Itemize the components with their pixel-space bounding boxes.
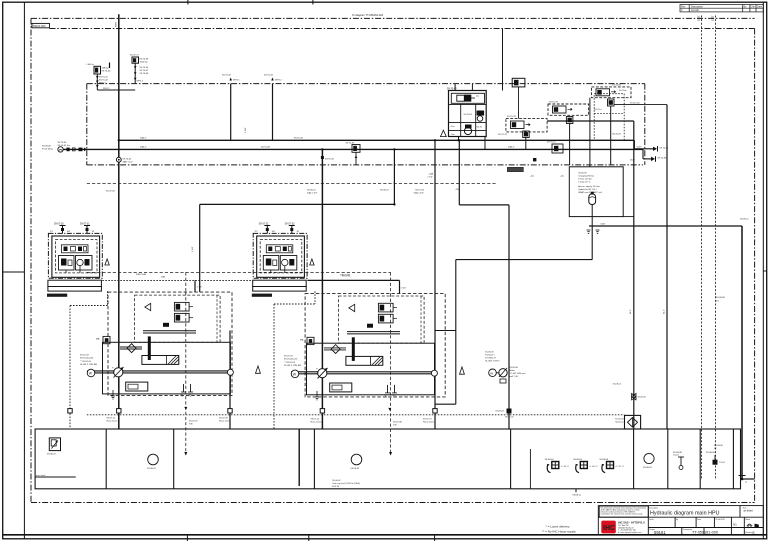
svg-text:21-06-2019: 21-06-2019 [715,519,724,521]
svg-text:59161: 59161 [654,530,666,535]
svg-text:04-2": 04-2" [664,309,666,314]
svg-text:59-09-07 /: 59-09-07 / [485,355,495,357]
svg-text:59-09-12: 59-09-12 [380,190,390,192]
svg-text:59-70-80: 59-70-80 [612,85,622,87]
svg-text:60-05-xx: 60-05-xx [615,422,624,424]
svg-text:M: M [297,231,299,233]
svg-text:59-07-xx: 59-07-xx [342,276,351,278]
svg-text:1 1/4": 1 1/4" [427,177,433,179]
svg-text:29A: 29A [161,276,165,279]
svg-text:Scale: Scale [649,519,654,521]
svg-text:MA: MA [96,338,100,341]
svg-text:59-70: 59-70 [477,126,483,128]
svg-text:* = Loose delivery: * = Loose delivery [546,525,570,529]
svg-text:59-09-05: 59-09-05 [714,445,724,447]
svg-text:P-max 210 bar: P-max 210 bar [578,178,592,181]
svg-text:MA: MA [300,338,304,341]
svg-text:59-70-41: 59-70-41 [99,77,109,79]
svg-text:59-07-07: 59-07-07 [189,421,199,423]
svg-text:59-70-81: 59-70-81 [612,134,622,136]
svg-text:59-07-31: 59-07-31 [80,222,90,225]
svg-text:+/- 50 °C: +/- 50 °C [561,466,570,468]
svg-text:SAE 1 1/2": SAE 1 1/2" [123,161,134,164]
svg-text:59-70-48: 59-70-48 [658,158,668,160]
svg-text:Hose Drain: Hose Drain [219,420,231,423]
svg-text:T/B: T/B [189,424,193,426]
svg-text:WP4.1: WP4.1 [103,88,110,90]
svg-text:Hose 1/2": Hose 1/2" [505,417,514,419]
svg-text:M: M [92,231,94,233]
svg-text:59-70-7x: 59-70-7x [547,142,557,144]
svg-text:59-70xx: 59-70xx [619,90,627,92]
svg-text:59-08-07: 59-08-07 [47,454,57,456]
svg-text:5107: 5107 [601,224,607,226]
svg-text:Sheet: Sheet [745,518,750,521]
svg-text:WP4.2: WP4.2 [137,81,144,83]
svg-text:59-70-38: 59-70-38 [140,73,150,75]
svg-text:1 1/4": 1 1/4" [401,287,407,289]
svg-text:wall T 40°: wall T 40° [510,376,519,378]
svg-text:1 1/4": 1 1/4" [192,246,194,252]
svg-text:Hose Drain: Hose Drain [311,421,323,424]
svg-text:59-70-46 2xx: 59-70-46 2xx [58,145,72,147]
svg-text:As built: As built [691,9,699,12]
svg-text:59-09-08: 59-09-08 [716,297,726,299]
svg-text:04A-2": 04A-2" [140,136,147,139]
svg-text:59-08-04: 59-08-04 [545,459,555,461]
svg-text:59-08-05: 59-08-05 [573,459,583,461]
svg-text:TT-059161-000: TT-059161-000 [692,531,718,535]
svg-text:59-08-01: 59-08-01 [147,468,157,470]
svg-text:59-70-42: 59-70-42 [222,75,232,77]
svg-text:LS-01: LS-01 [673,455,680,457]
svg-text:59-07-08: 59-07-08 [393,422,403,424]
svg-text:28-70-08: 28-70-08 [261,146,271,148]
svg-text:min. level: min. level [36,475,46,477]
svg-text:Description: Description [649,506,658,509]
svg-text:59-09-03: 59-09-03 [615,419,624,421]
svg-text:N1: N1 [733,523,737,527]
svg-text:Date: Date [757,5,763,8]
svg-text:By: By [676,519,678,521]
svg-text:T/B: T/B [393,425,397,427]
svg-text:59-09-04: 59-09-04 [495,411,504,413]
svg-text:59-212-00: 59-212-00 [630,103,640,105]
svg-text:59-08-06: 59-08-06 [599,459,609,461]
svg-text:** 59-91-62: ** 59-91-62 [284,362,296,364]
svg-text:59-70-79: 59-70-79 [549,102,559,104]
svg-text:WP4: WP4 [116,21,118,27]
svg-text:is prohibited. The contents to: is prohibited. The contents to be used f… [601,513,644,516]
svg-text:** = No IHC Hytop supply: ** = No IHC Hytop supply [542,529,576,533]
svg-text:WP3.2: WP3.2 [275,80,282,82]
svg-text:59-70-44: 59-70-44 [99,80,109,82]
svg-text:59-70-78: 59-70-78 [507,116,517,118]
svg-text:59-07-33: 59-07-33 [285,222,295,225]
svg-text:04A-2": 04A-2" [140,145,147,148]
svg-text:SL-0R5 3 TRIO: SL-0R5 3 TRIO [485,361,500,363]
svg-text:59-09-11: 59-09-11 [307,189,316,191]
svg-text:59-70-34: 59-70-34 [325,159,335,161]
svg-text:59-70-x: 59-70-x [594,109,602,111]
svg-text:59-70-64: 59-70-64 [464,114,473,116]
svg-text:+/- 60 °C: +/- 60 °C [589,466,598,468]
svg-text:IHC: IHC [603,525,615,532]
svg-text:59-70-50: 59-70-50 [123,159,133,161]
svg-text:** 59-91-61: ** 59-91-61 [80,361,92,363]
svg-text:Hydraulic diagram main HPU: Hydraulic diagram main HPU [650,511,720,517]
svg-text:WP3.1: WP3.1 [233,80,240,82]
svg-text:04-2": 04-2" [630,309,632,314]
svg-text:04A-1 1/4": 04A-1 1/4" [307,191,317,194]
svg-text:59-07-06: 59-07-06 [415,189,425,191]
svg-text:Hose Drain: Hose Drain [423,421,435,424]
svg-text:59-00-01: 59-00-01 [332,480,341,482]
svg-text:TS-01: TS-01 [719,462,726,464]
svg-text:Charging 180 bar: Charging 180 bar [578,175,594,178]
svg-text:59161-000: 59161-000 [33,24,46,28]
svg-text:59-70-60: 59-70-60 [447,87,457,90]
svg-text:as fitted: as fitted [744,508,754,512]
svg-text:59-07-16: 59-07-16 [219,418,229,420]
svg-text:59-70-45: 59-70-45 [58,142,68,144]
svg-text:59-09-xx: 59-09-xx [740,219,749,221]
svg-text:-264: -264 [455,189,460,191]
svg-text:To diagram TT-059162-001: To diagram TT-059162-001 [352,13,384,17]
svg-text:59-70-37: 59-70-37 [140,70,150,72]
svg-text:59-09-06: 59-09-06 [485,352,494,354]
svg-text:59-07-77: 59-07-77 [130,55,140,57]
svg-text:Hose Drain: Hose Drain [107,420,119,423]
svg-text:Accum. apacity 10 Liter: Accum. apacity 10 Liter [578,185,600,188]
svg-text:59-70-36: 59-70-36 [140,67,150,69]
svg-text:Date: Date [697,518,701,521]
svg-text:59-09-06: 59-09-06 [510,367,519,369]
svg-text:59-70-43: 59-70-43 [264,75,274,77]
svg-text:1 1/4": 1 1/4" [245,127,247,133]
svg-text:7,5 kW 1450 rpm: 7,5 kW 1450 rpm [510,372,526,375]
svg-text:IHC SAS - HYTOP B.V.: IHC SAS - HYTOP B.V. [618,521,645,525]
svg-text:T-temp 50 °C: T-temp 50 °C [578,181,591,184]
svg-text:59-70-33: 59-70-33 [294,137,304,139]
svg-text:59-08-08: 59-08-08 [673,452,683,454]
svg-text:5107: 5107 [637,147,643,149]
svg-text:5107: 5107 [712,15,715,21]
svg-text:108 bar: 108 bar [102,67,110,70]
svg-text:59-08-09: 59-08-09 [706,452,716,454]
svg-text:Revision: Revision [745,532,752,534]
svg-text:04A-1 1/4": 04A-1 1/4" [414,191,424,194]
svg-text:59-08-xx: 59-08-xx [573,494,582,496]
svg-text:WP4.4: WP4.4 [99,83,106,85]
svg-text:SL-6R 3 1/2H BB: SL-6R 3 1/2H BB [284,365,301,367]
svg-text:04B-P04B: 04B-P04B [136,274,147,276]
svg-text:Tank cap (vol.) 5700 ltr (5300: Tank cap (vol.) 5700 ltr (5300) [332,482,360,485]
svg-text:1 1/4": 1 1/4" [197,287,203,289]
svg-text:Motor: Motor [510,369,516,372]
svg-text:59-07-(24,25): 59-07-(24,25) [80,358,94,360]
svg-text:59-70-74: 59-70-74 [498,134,508,136]
svg-text:59-07-05: 59-07-05 [106,191,116,193]
svg-text:59-08-03: 59-08-03 [643,467,653,469]
svg-text:59-07-30: 59-07-30 [54,222,64,225]
svg-text:5107: 5107 [698,15,701,21]
svg-text:59-07-32: 59-07-32 [259,222,269,225]
svg-text:E: sales.hytop@royalihc.com: E: sales.hytop@royalihc.com [618,531,642,534]
svg-text:59-07-17: 59-07-17 [423,419,433,421]
svg-text:+/- 70 °C: +/- 70 °C [615,466,624,468]
svg-text:59-70-39: 59-70-39 [140,59,150,61]
svg-text:5107: 5107 [630,160,636,162]
svg-text:-04A: -04A [428,173,433,176]
svg-text:LSH-5x: LSH-5x [87,64,95,66]
svg-text:WBAT max P WBAT 1 m3: WBAT max P WBAT 1 m3 [578,191,603,194]
svg-text:59-70-40: 59-70-40 [102,71,112,73]
svg-text:59-08-02: 59-08-02 [351,468,361,470]
svg-text:From filling: From filling [42,148,53,151]
svg-text:59-09-08: 59-09-08 [42,146,52,148]
svg-text:59-07-18: 59-07-18 [80,355,90,357]
svg-text:59-07-11: 59-07-11 [107,418,116,420]
svg-text:59-07-(26,27): 59-07-(26,27) [284,359,298,361]
svg-text:SL-6R 3 1/2H BB: SL-6R 3 1/2H BB [80,364,97,366]
svg-text:HLP 46: HLP 46 [332,486,340,488]
svg-text:ST 9000-77: ST 9000-77 [485,358,497,360]
svg-text:04A-2": 04A-2" [508,145,515,148]
svg-text:59-07-12: 59-07-12 [311,419,321,421]
svg-text:59-70-46: 59-70-46 [660,148,670,150]
svg-text:59-07-19: 59-07-19 [284,355,294,357]
svg-text:59-09-09: 59-09-09 [578,173,587,175]
svg-text:Description: Description [691,5,704,8]
svg-text:Update for N2: 8,4 L: Update for N2: 8,4 L [578,188,598,191]
svg-text:59-09-01: 59-09-01 [613,384,622,386]
svg-text:W: W [490,371,493,375]
svg-text:59-09-02: 59-09-02 [638,397,647,399]
svg-text:1100 bar: 1100 bar [140,61,149,64]
